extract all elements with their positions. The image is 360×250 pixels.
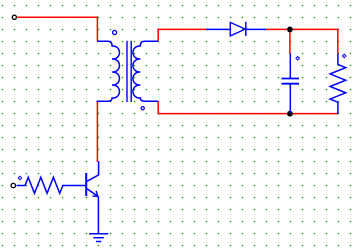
transformer TX1 primary winding: [97, 41, 120, 101]
diode D1 triangle: [230, 22, 245, 36]
capacitor C1 bottom plate: [282, 83, 300, 85]
wire bottom rail from transformer secondary bottom to R2 bottom: [158, 102, 338, 114]
diode D1 cathode lead: [246, 28, 266, 30]
junction dot bottom node: [287, 111, 293, 117]
wire from diode cathode to top-right corner down to R2: [266, 29, 338, 53]
transformer TX1 core line 2: [130, 41, 132, 102]
resistor R2: [330, 54, 346, 114]
junction dot top node: [287, 27, 293, 33]
diode D1 cathode bar: [245, 22, 247, 36]
transistor Q1 emitter: [87, 189, 99, 213]
wire from P1 to transformer primary top: [17, 17, 97, 41]
capacitor C1 top pin: [289, 54, 291, 79]
transformer TX1 primary phase dot: [113, 30, 117, 34]
capacitor C1 bottom pin: [289, 84, 291, 113]
transistor Q1 collector: [87, 162, 99, 182]
resistor R1: [17, 177, 86, 193]
wire from transformer primary bottom to Q1 collector: [96, 102, 98, 162]
capacitor C1 origin marker: [296, 57, 300, 61]
transformer TX1 secondary phase dot: [141, 107, 144, 110]
transistor Q1 emitter arrow: [92, 191, 98, 197]
wire from transformer secondary top to diode anode: [158, 29, 206, 41]
transformer TX1 core line 1: [126, 41, 128, 102]
ground: [89, 213, 108, 242]
terminal P2: [11, 183, 15, 187]
resistor R2 origin marker: [342, 54, 346, 58]
diode D1 anode lead: [206, 28, 230, 30]
transistor Q1 base bar: [85, 173, 87, 196]
capacitor C1 top plate: [282, 78, 300, 80]
transformer TX1 secondary winding: [133, 41, 158, 101]
resistor R1 origin marker: [18, 176, 22, 180]
terminal P1: [12, 15, 16, 19]
wire from top node down to C1: [289, 29, 291, 53]
